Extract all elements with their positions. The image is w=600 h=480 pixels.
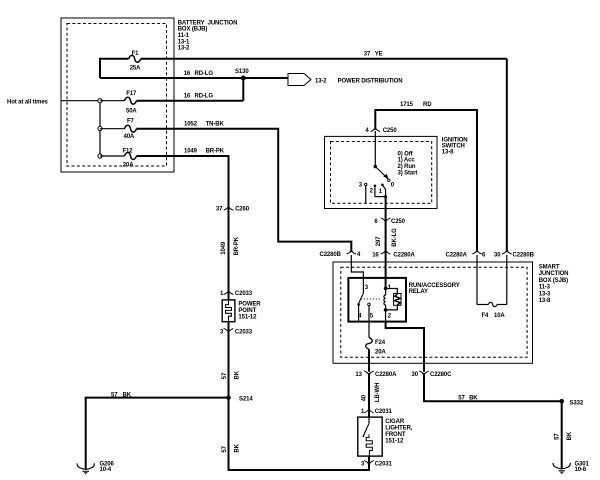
label switch positions <box>398 151 418 176</box>
label CIGAR LIGHTER FRONT 151-12 <box>385 419 412 445</box>
svg-text:11-3: 11-3 <box>539 285 551 291</box>
power point box <box>222 300 235 322</box>
wire S130 vertical <box>242 78 244 101</box>
connector C2280A pin 16 <box>381 249 391 254</box>
svg-text:BR-PK: BR-PK <box>206 149 225 155</box>
run/accessory relay box <box>348 278 406 322</box>
ignition switch outer box <box>325 136 438 208</box>
connector C2033 pin 3 <box>224 328 234 333</box>
svg-text:13-2: 13-2 <box>178 46 190 52</box>
svg-text:40A: 40A <box>124 134 135 140</box>
wire terminal 1-2 jumper <box>375 196 386 198</box>
relay contact pin 5 <box>368 303 371 306</box>
splice S332 <box>559 399 564 404</box>
power point element <box>226 300 232 322</box>
svg-text:13-8: 13-8 <box>442 150 454 156</box>
connector C260 pin 37 <box>224 205 234 210</box>
svg-text:BK: BK <box>235 443 241 452</box>
wire F7 row <box>100 128 125 130</box>
connector C2280B pin 4 <box>347 249 357 254</box>
smart junction box SJB outer box <box>333 262 533 363</box>
svg-text:20A: 20A <box>375 350 386 356</box>
wire bus vertical inside BJB <box>99 101 101 156</box>
svg-text:BK: BK <box>567 431 573 440</box>
svg-text:57: 57 <box>222 445 228 452</box>
svg-text:C2280B: C2280B <box>513 252 535 258</box>
label SMART JUNCTION BOX (SJB) <box>539 265 569 305</box>
wire relay pin 5 to F24 <box>368 306 370 338</box>
svg-text:151-12: 151-12 <box>385 439 404 445</box>
wire ignition output down to SJB relay coil <box>385 197 387 289</box>
wire 1715 RD from ignition switch to SJB <box>375 110 477 252</box>
node ignition output junction <box>384 195 387 198</box>
svg-text:F7: F7 <box>127 119 135 125</box>
svg-text:FRONT: FRONT <box>385 432 406 438</box>
svg-text:BATTERY JUNCTION: BATTERY JUNCTION <box>178 20 238 26</box>
wire F12 row <box>100 155 125 157</box>
svg-text:37: 37 <box>216 207 223 213</box>
cigar lighter switch <box>368 417 370 423</box>
svg-text:10-6: 10-6 <box>575 467 587 473</box>
svg-text:2) Run: 2) Run <box>398 164 416 170</box>
terminal 3 <box>365 183 367 185</box>
wire C2280A-13 to cigar lighter <box>368 375 370 418</box>
wire C2280B-30 to fuse F4 <box>506 255 508 305</box>
svg-text:151-12: 151-12 <box>238 314 257 320</box>
relay switch arm <box>359 293 364 303</box>
svg-text:13: 13 <box>355 372 362 378</box>
splice S214 <box>226 395 231 400</box>
relay coil bottom junction <box>384 308 388 312</box>
svg-text:BK: BK <box>123 392 132 398</box>
terminal 1 <box>381 184 384 187</box>
svg-text:C2280A: C2280A <box>375 372 397 378</box>
wire 16 RD-LG from F1 input to power distribution <box>100 77 289 79</box>
svg-text:10A: 10A <box>494 313 505 319</box>
svg-text:YE: YE <box>375 52 383 58</box>
svg-text:297: 297 <box>376 236 382 246</box>
svg-text:C2280B: C2280B <box>320 252 342 258</box>
svg-text:BK-LG: BK-LG <box>392 228 398 247</box>
svg-text:BOX (BJB): BOX (BJB) <box>178 27 208 33</box>
svg-text:1049: 1049 <box>184 149 198 155</box>
svg-text:RD-LG: RD-LG <box>195 94 214 100</box>
svg-text:25A: 25A <box>130 65 141 71</box>
svg-text:IGNITION: IGNITION <box>442 137 468 143</box>
wire F1 output 37 YE horizontal <box>141 58 507 60</box>
ignition switch inner dashed box <box>331 142 432 204</box>
wire S214 to G206 branch <box>86 398 229 470</box>
label POWER POINT 151-12 <box>238 301 261 320</box>
svg-text:1052: 1052 <box>184 122 198 128</box>
svg-text:16: 16 <box>372 252 379 258</box>
svg-text:57: 57 <box>458 395 465 401</box>
svg-text:F17: F17 <box>126 91 137 97</box>
svg-text:CIGAR: CIGAR <box>385 419 405 425</box>
svg-text:57: 57 <box>554 433 560 440</box>
connector C2280A pin 6 <box>472 249 482 254</box>
svg-text:C2033: C2033 <box>235 330 253 336</box>
fuse F4 link <box>477 304 488 306</box>
wire terminal 1 drop <box>382 185 385 197</box>
svg-text:20A: 20A <box>123 163 134 169</box>
svg-text:S214: S214 <box>239 397 253 403</box>
wire terminal 3 stub <box>365 186 367 204</box>
relay actuation dotted line <box>361 298 382 300</box>
ground G301 <box>553 463 570 474</box>
svg-text:F24: F24 <box>375 340 386 346</box>
wire terminal 2 drop <box>374 186 376 197</box>
svg-text:RD-LG: RD-LG <box>195 71 214 77</box>
svg-text:C2031: C2031 <box>375 409 393 415</box>
svg-text:40: 40 <box>362 394 368 401</box>
connector C250 pin 6 <box>381 218 391 223</box>
svg-text:F1: F1 <box>132 51 140 57</box>
svg-text:BOX (SJB): BOX (SJB) <box>539 278 568 284</box>
svg-text:C2033: C2033 <box>235 291 253 297</box>
svg-text:C2280A: C2280A <box>446 252 468 258</box>
svg-text:3) Start: 3) Start <box>398 171 418 177</box>
svg-text:F12: F12 <box>123 148 134 154</box>
fuse F12 <box>125 153 137 160</box>
svg-text:13-8: 13-8 <box>539 298 551 304</box>
connector C2033 pin 1 <box>224 290 234 295</box>
svg-text:13-3: 13-3 <box>539 291 551 297</box>
svg-text:16: 16 <box>184 94 191 100</box>
splice S130 <box>241 76 246 81</box>
arrow off-page to power distribution <box>288 74 311 86</box>
svg-text:BR-PK: BR-PK <box>234 236 240 255</box>
svg-text:S130: S130 <box>235 69 249 75</box>
svg-text:RD: RD <box>423 102 432 108</box>
label BATTERY JUNCTION BOX (BJB) <box>178 20 238 51</box>
svg-text:16: 16 <box>184 71 191 77</box>
svg-text:LB-WH: LB-WH <box>375 383 381 402</box>
svg-text:BK: BK <box>235 370 241 379</box>
wire F17 row <box>100 100 125 102</box>
wire F1 feed loop <box>100 59 129 78</box>
wire 1049 BR-PK down to power point <box>137 156 229 300</box>
svg-text:57: 57 <box>222 372 228 379</box>
svg-text:SMART: SMART <box>539 265 560 271</box>
svg-text:57: 57 <box>111 392 118 398</box>
wire 1052 TN-BK <box>137 129 352 251</box>
switch arm with arrowhead <box>375 167 385 177</box>
svg-text:TN-BK: TN-BK <box>206 122 225 128</box>
node bus tap F7 <box>98 126 102 130</box>
svg-text:C2280C: C2280C <box>430 372 452 378</box>
ground G206 <box>77 463 94 474</box>
svg-text:LIGHTER,: LIGHTER, <box>385 426 412 432</box>
relay pin 2 wire <box>385 310 387 322</box>
wire hot feed into BJB <box>61 100 100 102</box>
relay pin 4 wire <box>358 304 360 321</box>
resistor inside relay <box>394 294 401 306</box>
relay coil top junction <box>384 287 388 291</box>
svg-text:POINT: POINT <box>238 308 256 314</box>
connector C250 pin 4 <box>371 127 381 132</box>
svg-text:Hot at all times: Hot at all times <box>7 100 49 106</box>
svg-text:C260: C260 <box>235 207 250 213</box>
svg-text:F4: F4 <box>482 313 490 319</box>
svg-text:1) Acc: 1) Acc <box>398 158 416 164</box>
relay pin 3 internal wire <box>362 279 364 293</box>
svg-text:BK: BK <box>469 395 478 401</box>
fuse F24 <box>366 338 373 350</box>
svg-text:SWITCH: SWITCH <box>442 144 465 150</box>
svg-text:S332: S332 <box>570 400 584 406</box>
svg-text:50A: 50A <box>126 108 137 114</box>
battery junction box BJB outer box <box>61 18 174 172</box>
wire C2280C to S332 <box>424 375 562 402</box>
svg-text:1715: 1715 <box>400 102 414 108</box>
fuse F1 <box>129 55 141 62</box>
wire 16 RD-LG lower from F17 to S130 <box>137 100 244 102</box>
wire relay pin 2 to C2280C <box>386 322 424 372</box>
svg-text:1049: 1049 <box>221 241 227 255</box>
relay coil <box>384 289 386 311</box>
terminal 2 <box>374 185 377 188</box>
wire 37 YE vertical down to SJB <box>506 59 508 251</box>
cigar lighter box <box>358 417 382 456</box>
node bus tap F12 <box>98 154 102 158</box>
wire ignition input to pivot <box>374 131 376 167</box>
svg-text:POWER: POWER <box>238 301 261 307</box>
relay contact pin 4 <box>357 303 360 306</box>
connector C2280B pin 30 <box>502 249 512 254</box>
wire S214 down to cigar lighter return <box>229 398 370 470</box>
connector C2031 pin 1 <box>364 408 374 413</box>
svg-text:37: 37 <box>364 52 371 58</box>
wire cigar lighter to C2031-3 <box>368 456 370 464</box>
smart junction box SJB inner dashed box <box>341 267 527 357</box>
svg-text:13-2: 13-2 <box>315 78 327 84</box>
svg-text:10-4: 10-4 <box>100 467 112 473</box>
fuse F7 <box>125 125 137 132</box>
svg-text:C250: C250 <box>383 128 398 134</box>
svg-text:0) Off: 0) Off <box>398 151 414 157</box>
label IGNITION SWITCH 13-8 <box>442 137 468 155</box>
fuse F17 <box>125 97 137 104</box>
wire C2280B-4 to relay pin 3 <box>351 255 363 279</box>
wire F24 to C2280A-13 <box>368 349 370 372</box>
connector C2031 pin 3 <box>364 461 374 466</box>
node bus tap F17 <box>98 99 102 103</box>
svg-text:C2031: C2031 <box>375 462 393 468</box>
connector C2280A pin 13 <box>364 371 374 376</box>
svg-text:C2280A: C2280A <box>393 252 415 258</box>
relay resistor branch <box>386 289 398 294</box>
connector C2280C pin 30 <box>419 371 429 376</box>
svg-text:11-1: 11-1 <box>178 33 190 39</box>
wire power point to S214 <box>228 322 230 398</box>
wire C2280A-6 to fuse F4 <box>476 255 478 305</box>
svg-text:POWER DISTRIBUTION: POWER DISTRIBUTION <box>338 78 403 84</box>
cigar lighter element <box>366 434 372 456</box>
battery junction box BJB inner dashed box <box>67 24 167 167</box>
svg-text:RELAY: RELAY <box>409 289 428 295</box>
svg-text:30: 30 <box>494 252 501 258</box>
terminal 0 <box>388 179 390 181</box>
wire S332 to G301 <box>561 401 563 469</box>
svg-text:JUNCTION: JUNCTION <box>539 271 569 277</box>
svg-text:30: 30 <box>412 372 419 378</box>
svg-text:C250: C250 <box>391 219 406 225</box>
switch pivot <box>374 165 378 169</box>
svg-text:13-1: 13-1 <box>178 39 190 45</box>
